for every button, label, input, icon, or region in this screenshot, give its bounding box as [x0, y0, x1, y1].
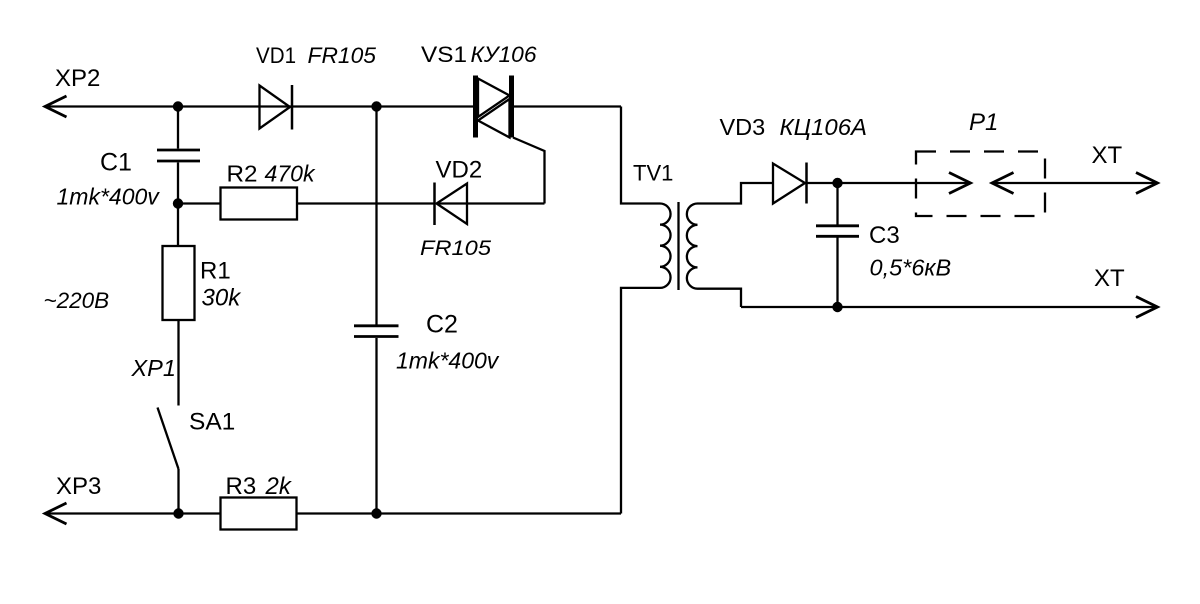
spark gap P1 dashed box — [916, 152, 1045, 217]
svg-text:КЦ106А: КЦ106А — [780, 114, 868, 140]
switch SA1 blade — [158, 408, 179, 470]
capacitor C1 — [157, 150, 200, 161]
wire top rail left segment — [45, 105, 475, 107]
wire R2 to VD2 — [297, 202, 435, 204]
wire secondary top lead — [698, 183, 774, 204]
svg-text:470k: 470k — [265, 161, 317, 187]
XP2 arrow — [45, 96, 67, 117]
wire C2 lower lead — [375, 338, 377, 514]
wire bottom rail right — [297, 512, 622, 514]
junction node bottom C2 — [371, 508, 381, 518]
svg-text:VD1: VD1 — [256, 43, 296, 68]
thyristor VS1 left bar — [473, 76, 478, 138]
thyristor VS1 right bar — [509, 76, 514, 138]
svg-text:~220В: ~220В — [44, 288, 110, 313]
svg-text:XP3: XP3 — [56, 473, 101, 500]
VS1 upper triangle — [478, 79, 510, 118]
wire primary bottom lead — [621, 288, 660, 514]
svg-text:КУ106: КУ106 — [471, 42, 538, 67]
svg-text:R2: R2 — [227, 161, 258, 187]
wire bottom output rail — [741, 306, 1157, 308]
svg-text:1mk*400v: 1mk*400v — [57, 184, 161, 210]
resistor R1 — [163, 246, 195, 320]
wire VD2 to gate corner — [437, 202, 545, 204]
svg-text:XP1: XP1 — [131, 355, 176, 381]
wire C3 lower lead — [836, 238, 838, 308]
svg-text:C2: C2 — [426, 311, 458, 339]
wire node to R2 — [178, 202, 221, 204]
resistor R2 — [221, 188, 298, 220]
svg-text:30k: 30k — [202, 285, 243, 312]
resistor R3 — [221, 498, 297, 530]
XT bottom arrowhead — [1136, 297, 1158, 318]
svg-text:XT: XT — [1094, 265, 1125, 292]
diode VD1 — [260, 86, 291, 129]
capacitor C2 — [354, 326, 399, 337]
svg-text:C3: C3 — [869, 222, 900, 249]
VS1 gate wire — [513, 138, 545, 204]
XP3 arrow — [45, 503, 67, 524]
transformer TV1 primary winding — [660, 204, 671, 288]
diode VD3 — [773, 164, 805, 204]
wire C1 upper lead — [177, 107, 179, 149]
svg-text:VD3: VD3 — [720, 114, 766, 140]
svg-text:FR105: FR105 — [308, 43, 377, 68]
wire C1 lower lead — [177, 163, 179, 204]
wire node to R1 — [177, 204, 179, 247]
diode VD2 — [437, 184, 468, 225]
svg-text:2k: 2k — [265, 473, 293, 500]
svg-text:R3: R3 — [226, 473, 257, 500]
XT top arrowhead — [1136, 173, 1158, 194]
junction node C1/R1/R2 — [173, 198, 183, 208]
wire primary top lead — [621, 107, 660, 204]
junction node bottom switch — [173, 508, 183, 518]
capacitor C3 — [816, 226, 859, 237]
wire C3 upper lead — [836, 183, 838, 225]
svg-text:P1: P1 — [969, 109, 998, 136]
P1 left arrowhead — [949, 173, 971, 194]
svg-text:VD2: VD2 — [436, 157, 483, 184]
VD2 cathode bar — [433, 183, 436, 226]
junction node VD3/C3 — [832, 178, 842, 188]
wire P1 to XT top — [992, 182, 1157, 184]
VD3 cathode bar — [805, 163, 808, 204]
transformer TV1 core — [677, 202, 679, 290]
junction node C3 bottom — [832, 302, 842, 312]
wire R1 to switch — [177, 320, 179, 406]
svg-text:1mk*400v: 1mk*400v — [396, 348, 500, 374]
junction node top-left — [173, 101, 183, 111]
wire VD3 to P1 — [807, 182, 969, 184]
wire secondary bottom lead — [698, 289, 742, 307]
svg-text:SA1: SA1 — [189, 409, 235, 436]
svg-text:FR105: FR105 — [420, 236, 492, 260]
svg-text:XP2: XP2 — [55, 65, 100, 92]
svg-text:XT: XT — [1092, 142, 1123, 169]
svg-text:C1: C1 — [100, 149, 132, 177]
svg-text:R1: R1 — [200, 258, 231, 285]
wire switch to bottom rail — [177, 469, 179, 514]
svg-text:TV1: TV1 — [633, 161, 673, 186]
junction node top-mid — [371, 101, 381, 111]
transformer TV1 secondary winding — [687, 204, 698, 289]
wire bottom rail left — [45, 512, 221, 514]
VD1 cathode bar — [291, 85, 294, 130]
svg-text:VS1: VS1 — [421, 42, 467, 67]
wire C2 upper lead — [375, 107, 377, 325]
svg-text:0,5*6кВ: 0,5*6кВ — [870, 255, 952, 281]
wire top rail right segment — [512, 105, 621, 107]
VS1 lower triangle — [478, 99, 510, 138]
P1 right arrowhead — [992, 173, 1014, 194]
